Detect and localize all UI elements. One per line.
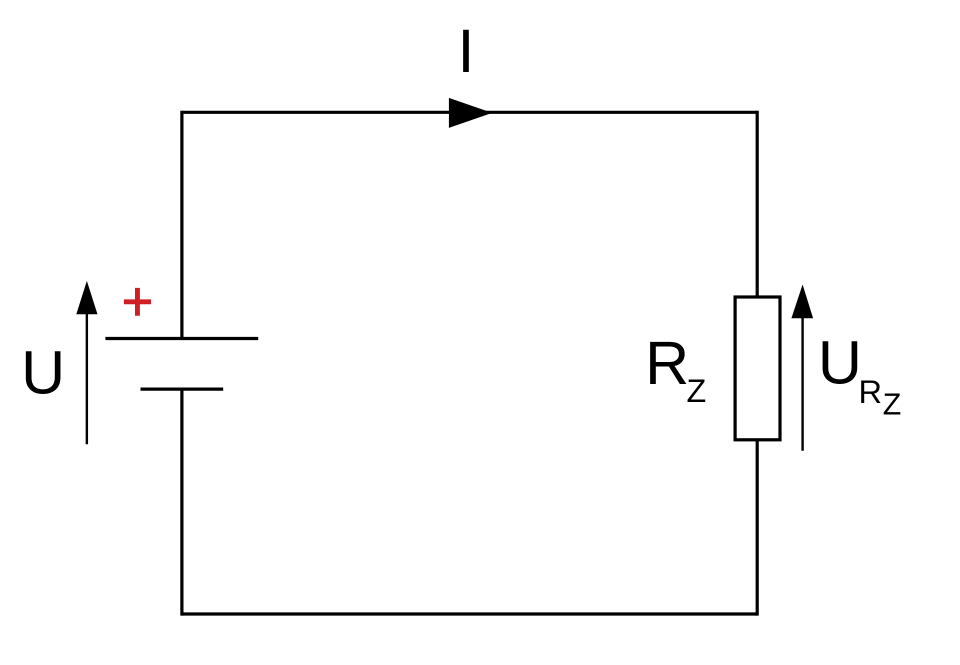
voltage arrow URZ shaft: [801, 314, 803, 451]
battery V1 long plate (+): [105, 337, 258, 340]
wire right lower: [756, 441, 759, 616]
svg-text:Z: Z: [883, 387, 902, 421]
wire left upper: [180, 111, 183, 339]
svg-text:U: U: [818, 329, 862, 397]
battery V1 short plate (-): [141, 388, 224, 391]
svg-text:Z: Z: [687, 373, 707, 409]
voltage arrow U head: [76, 281, 97, 314]
svg-text:I: I: [458, 17, 475, 85]
current arrowhead on top wire: [449, 98, 492, 128]
voltage arrow URZ head: [791, 285, 813, 319]
wire right upper: [756, 111, 759, 296]
svg-text:R: R: [645, 329, 689, 397]
resistor RZ body: [735, 297, 780, 440]
wire top: [182, 111, 757, 114]
plus sign (red): [124, 288, 151, 316]
wire bottom: [182, 612, 757, 615]
voltage arrow U shaft: [86, 310, 88, 444]
svg-text:R: R: [859, 373, 883, 410]
wire left lower: [180, 389, 183, 615]
svg-text:U: U: [21, 339, 65, 407]
